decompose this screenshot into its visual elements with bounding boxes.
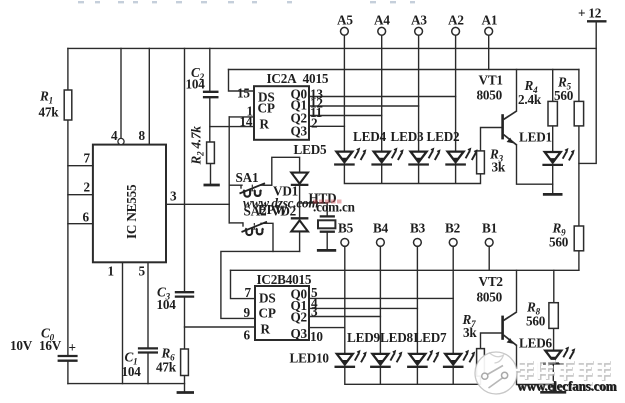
resistor R4 2.4k — [548, 101, 557, 126]
LED3 — [408, 148, 440, 165]
wire: R8 bottom to LED6 anode — [553, 328, 555, 350]
wire: Q0 pin13 line to A2 column — [309, 96, 456, 98]
svg-text:LED8: LED8 — [380, 330, 414, 345]
wire: A1 column down to top node bus — [488, 35, 490, 70]
svg-text:1: 1 — [108, 264, 114, 279]
wire: HTD bottom to ground — [326, 232, 328, 249]
svg-text:LED4: LED4 — [353, 129, 387, 144]
transistor VT2 8050 (NPN) — [501, 312, 517, 346]
svg-text:A2: A2 — [448, 13, 464, 28]
wire: R5 bottom to +12 junction down to R9 — [578, 126, 580, 226]
svg-text:R2 4.7k: R2 4.7k — [189, 126, 206, 166]
resistor R7 3k — [477, 349, 485, 377]
svg-text:2.4k: 2.4k — [518, 92, 542, 107]
wire: 555 pin2 stub — [68, 194, 93, 196]
wire: HTD branch — [300, 203, 328, 216]
wire: SA1 output jog up to VD1 anode — [261, 157, 300, 185]
svg-text:560: 560 — [526, 314, 546, 329]
svg-text:LED5: LED5 — [294, 142, 328, 157]
wire: Q2 pin3 line to B4 column — [309, 316, 380, 318]
wire: A2 column down to LED2 — [455, 35, 457, 152]
svg-text:16V: 16V — [39, 338, 62, 353]
terminal B5 — [341, 239, 349, 247]
svg-text:9: 9 — [244, 305, 251, 320]
wire: B2 column down to LED7 — [452, 246, 454, 354]
wire: R7 top to VT2 base — [481, 333, 502, 349]
terminal B1 — [485, 239, 493, 247]
terminal A2 — [452, 27, 460, 35]
wire: R9 bottom to lower node bus — [578, 251, 580, 270]
wire: R3 top to VT1 base — [481, 128, 502, 151]
wire: C3 feed column from rail — [184, 48, 186, 292]
LED4 — [371, 148, 403, 165]
svg-text:7: 7 — [84, 151, 91, 166]
wire: 555 pin6 stub — [68, 223, 93, 225]
diode VD1 (pointing down) — [291, 173, 308, 184]
centre watermark (dzsc) — [243, 196, 356, 218]
svg-text:B2: B2 — [445, 221, 461, 236]
wire: R6 bottom to ground rail and ground stub — [184, 376, 186, 392]
svg-text:Q3: Q3 — [291, 124, 308, 139]
wire: VD1 cathode / HTD node / VD2 cathode column — [299, 185, 301, 219]
svg-text:LED2: LED2 — [427, 129, 461, 144]
terminal A3 — [415, 27, 423, 35]
svg-text:LED1: LED1 — [519, 130, 552, 145]
wire: VD2 anode riser from bus — [299, 232, 301, 252]
wire: IC2B pin6 R stub to C3/R6 node — [185, 326, 256, 328]
svg-text:A4: A4 — [374, 13, 390, 28]
capacitor C2 104 — [203, 92, 219, 97]
wire: +12 terminal drop to rail and down right side — [579, 21, 596, 163]
wire: C2 drop from rail — [209, 48, 211, 91]
svg-text:VT2: VT2 — [479, 274, 504, 289]
wire: LED1 cathode to ground — [552, 165, 554, 194]
svg-text:14: 14 — [240, 114, 253, 129]
wire: 555 pin1 down to ground rail — [122, 262, 124, 383]
resistor R1 47k — [64, 90, 72, 120]
wire: A5 column down to LED5 — [343, 35, 345, 152]
wire: bottom-left ground rail — [68, 383, 185, 385]
svg-text:8050: 8050 — [477, 88, 503, 103]
wire: B4 column down to LED9 — [379, 246, 381, 354]
svg-text:CP: CP — [258, 101, 275, 116]
op-amp/timer U1 IC NE555 box — [93, 145, 166, 263]
bottom-right watermark (elecfans) — [475, 352, 617, 394]
wire: Q3 pin10 line to B5 column — [309, 327, 345, 329]
svg-text:R: R — [261, 322, 271, 337]
terminal A4 — [378, 27, 386, 35]
wire: Q1 pin4 line to B3 column — [309, 307, 417, 309]
wire: top node bus (DS / A1 / VT1 collector / R4 / R5) — [229, 69, 579, 71]
capacitor C0 10V 16V electrolytic — [58, 356, 78, 361]
wire: R4 bottom to LED1 anode — [552, 126, 554, 152]
svg-text:LED3: LED3 — [391, 129, 425, 144]
wire: R4 drop from top node bus — [552, 70, 554, 102]
wire: Q1 pin12 line to A3 column — [309, 105, 419, 107]
svg-text:R: R — [260, 117, 270, 132]
wire: 555 pin5 down to C1 — [147, 262, 149, 348]
buzzer HTD piezo sounder — [318, 216, 335, 231]
wire: lower SA2/VD2 bus to IC2B CP jog — [221, 251, 300, 318]
wire: R5 drop from top node bus — [578, 70, 580, 102]
wire: bottom LED cathode rail to R7 bottom — [345, 367, 481, 384]
svg-text:+ 12: + 12 — [578, 6, 602, 21]
wire: VT2 emitter drop and run to ground node — [517, 346, 554, 385]
LED6 — [543, 347, 575, 364]
wire: VT1 collector riser — [516, 70, 518, 111]
svg-text:104: 104 — [157, 297, 177, 312]
switch SA2 — [242, 222, 268, 235]
resistor R3 3k — [477, 151, 485, 174]
wire: left rail (R1 / pins 7-2-6 / C0 column) — [67, 48, 69, 355]
svg-text:VT1: VT1 — [479, 73, 503, 88]
wire: C3 bottom through IC2B pin6 node to R6 — [184, 297, 186, 349]
resistor R2 4.7k — [207, 142, 215, 164]
wire: B5 column down to LED10 — [344, 246, 346, 354]
wire: Q0 pin5 line to B2 column — [309, 297, 453, 299]
terminal B4 — [377, 239, 385, 247]
svg-text:8050: 8050 — [477, 290, 503, 305]
svg-text:6: 6 — [83, 210, 90, 225]
wire: R8 drop from lower node bus — [553, 270, 555, 302]
wire: 555 pin4 drop from rail — [120, 48, 122, 138]
svg-text:47k: 47k — [156, 360, 177, 375]
svg-text:A3: A3 — [411, 13, 427, 28]
terminal B2 — [449, 239, 457, 247]
svg-text:Q3: Q3 — [291, 326, 308, 341]
svg-text:10V: 10V — [10, 338, 33, 353]
LED2 — [445, 148, 477, 165]
pin 4 inversion bubble (NE555 RESET) — [118, 138, 124, 144]
svg-text:47k: 47k — [39, 105, 60, 120]
svg-text:104: 104 — [186, 77, 206, 92]
wire: IC2A CP vertical (pin1 to SA node) — [228, 117, 230, 223]
wire: C1 bottom to ground rail — [147, 353, 149, 384]
wire: top LED cathode rail to R3 bottom — [344, 165, 480, 184]
svg-text:6: 6 — [244, 328, 251, 343]
svg-text:7: 7 — [245, 285, 252, 300]
LED1 — [542, 148, 574, 165]
LED8 — [407, 350, 439, 367]
svg-text:2: 2 — [84, 180, 91, 195]
terminal A5 — [341, 27, 349, 35]
svg-text:B4: B4 — [373, 221, 389, 236]
svg-text:LED7: LED7 — [414, 330, 448, 345]
top cropped caption remnants — [78, 1, 415, 3]
wire: SA2 output drop — [261, 223, 273, 251]
svg-text:CP: CP — [259, 306, 276, 321]
svg-text:4: 4 — [111, 128, 118, 143]
power terminal +12 — [587, 20, 607, 22]
svg-text:LED10: LED10 — [290, 351, 330, 366]
shift register U2B IC2B 4015 box — [255, 272, 312, 341]
wire: B3 column down to LED8 — [416, 246, 418, 354]
wire: IC2A pin15 DS jog — [229, 70, 255, 92]
svg-text:5: 5 — [139, 264, 146, 279]
svg-text:LED6: LED6 — [519, 336, 553, 351]
svg-text:IC2A 4015: IC2A 4015 — [267, 71, 329, 86]
svg-text:www.elecfans.com: www.elecfans.com — [517, 379, 617, 394]
svg-text:8: 8 — [139, 128, 146, 143]
svg-text:3k: 3k — [492, 160, 506, 175]
wire: +12 top supply rail — [68, 47, 596, 49]
resistor R8 560 — [549, 303, 558, 329]
svg-text:IC2B4015: IC2B4015 — [257, 272, 312, 287]
wire: 555 pin8 drop from rail — [148, 48, 150, 144]
wire: SA2 feed jog — [229, 222, 242, 224]
wire: lower node bus (DS / B1 / VT2 collector / R8 / R9) — [231, 269, 579, 271]
svg-text:15: 15 — [237, 86, 250, 101]
wire: B1 column down to lower node bus — [488, 246, 490, 270]
LED10 — [335, 350, 367, 367]
wire: C0 bottom to ground rail — [67, 361, 69, 384]
svg-text:+: + — [69, 340, 76, 355]
wire: A4 column down to LED4 — [381, 35, 383, 152]
wire: LED6 cathode to ground — [552, 364, 554, 392]
capacitor C3 104 — [175, 292, 194, 296]
wire: R2 bottom to ground bar — [210, 164, 212, 185]
LED5 — [334, 148, 366, 165]
wire: 555 pin3 output — [166, 203, 229, 205]
resistor R6 47k — [181, 349, 189, 376]
wire: Q3 pin2 line to A5 column — [309, 125, 344, 127]
wire: C2 bottom to reset node — [209, 97, 211, 142]
wire: VT2 collector riser — [516, 270, 518, 311]
diode VD2 (pointing up) — [291, 217, 309, 219]
wire: 555 pin7 stub — [68, 165, 93, 167]
svg-text:3: 3 — [311, 304, 318, 319]
svg-text:B3: B3 — [410, 221, 426, 236]
ground (VT2 emitter / LED6) — [540, 391, 566, 394]
wire: IC2B pin7 DS jog — [231, 270, 256, 298]
wire: IC2A pin14 R stub to C2/R2 node — [210, 126, 254, 128]
resistor R9 560 — [574, 226, 583, 251]
svg-text:104: 104 — [122, 364, 142, 379]
wire: A3 column down to LED3 — [418, 35, 420, 152]
switch SA1 — [240, 183, 272, 196]
svg-text:DS: DS — [259, 291, 275, 306]
wire: SA1 feed — [229, 184, 242, 186]
svg-text:3: 3 — [170, 189, 177, 204]
wire: Q2 pin11 line to A4 column — [309, 115, 382, 117]
svg-text:A5: A5 — [337, 13, 353, 28]
terminal A1 — [485, 27, 493, 35]
ground (HTD bottom) — [317, 249, 336, 252]
svg-text:SA1: SA1 — [236, 170, 259, 185]
resistor R5 560 — [574, 101, 583, 126]
svg-text:LED9: LED9 — [347, 330, 381, 345]
terminal B3 — [414, 239, 422, 247]
transistor VT1 8050 (NPN) — [501, 111, 517, 145]
capacitor C1 104 — [138, 348, 158, 352]
svg-text:560: 560 — [554, 88, 574, 103]
LED9 — [370, 350, 402, 367]
shift register U2A IC2A 4015 box — [254, 71, 329, 140]
svg-text:10: 10 — [310, 329, 323, 344]
svg-text:3k: 3k — [463, 325, 477, 340]
svg-text:A1: A1 — [482, 13, 498, 28]
ground (R6 / bottom rail) — [177, 391, 194, 394]
wire: IC2A pin1 CP stub — [229, 116, 254, 118]
svg-text:IC NE555: IC NE555 — [124, 184, 139, 239]
svg-text:Q2: Q2 — [291, 310, 308, 325]
svg-text:www.dzsc.com: www.dzsc.com — [243, 196, 319, 211]
svg-text:560: 560 — [549, 235, 569, 250]
svg-text:B5: B5 — [338, 221, 354, 236]
ground (VT1 emitter / LED1) — [543, 193, 563, 196]
svg-text:B1: B1 — [482, 221, 497, 236]
LED7 — [443, 350, 475, 367]
svg-text:2: 2 — [311, 116, 318, 131]
wire: VT1 emitter drop and run to ground node — [517, 146, 553, 185]
ground (R2 bottom) — [204, 184, 220, 187]
